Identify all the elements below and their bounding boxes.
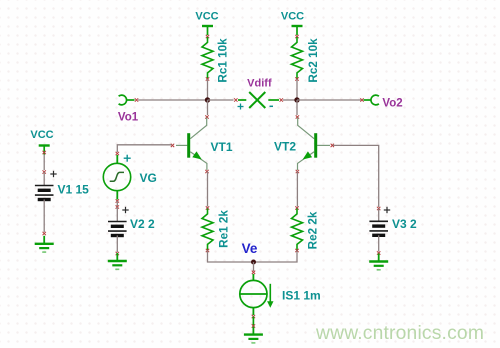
power symbol VCC right — [292, 26, 303, 35]
ground (V1) — [35, 236, 54, 252]
label plus (V3) — [384, 207, 390, 213]
pin mark collector — [296, 115, 299, 118]
svg-text:Vdiff: Vdiff — [247, 78, 272, 90]
transistor VT2 — [296, 115, 334, 173]
current source IS1 — [240, 274, 274, 315]
wire V3 top — [378, 209, 380, 222]
pin mark — [234, 98, 237, 101]
pin mark — [295, 206, 298, 209]
resistor Re1 — [202, 209, 213, 251]
wire Re1 to rail — [208, 251, 254, 263]
svg-text:VCC: VCC — [30, 129, 53, 141]
battery V3 — [369, 221, 388, 235]
svg-text:Vo1: Vo1 — [118, 112, 139, 124]
svg-text:Vo2: Vo2 — [382, 98, 402, 110]
wire V1 top — [43, 172, 45, 186]
pin mark — [252, 324, 255, 327]
svg-text:IS1 1m: IS1 1m — [282, 289, 321, 303]
battery V1 — [35, 186, 54, 200]
svg-text:VT1: VT1 — [210, 140, 232, 154]
label plus (V1) — [50, 171, 56, 177]
wire VT2 base to V3 — [333, 145, 379, 207]
pin mark — [116, 199, 119, 202]
ground (V2) — [108, 253, 127, 269]
pin mark — [43, 232, 46, 235]
svg-text:Re2 2k: Re2 2k — [307, 211, 320, 249]
wire Re2 to rail — [254, 251, 298, 263]
wire V1 to ground — [43, 200, 45, 233]
wire node B to VT2 collector — [296, 100, 298, 115]
pin mark — [295, 249, 298, 252]
node A — [205, 97, 210, 102]
pin mark — [206, 206, 209, 209]
pin mark — [377, 251, 380, 254]
pin mark — [377, 207, 380, 210]
svg-text:VT2: VT2 — [274, 140, 296, 154]
pin mark — [116, 152, 119, 155]
pin mark — [252, 315, 255, 318]
pin mark — [43, 170, 46, 173]
pin mark — [280, 98, 283, 101]
label plus (V2) — [122, 207, 128, 213]
emitter arrow — [192, 151, 202, 159]
power symbol V1 — [39, 146, 50, 155]
ground (IS1) — [244, 327, 263, 343]
pin mark collector — [205, 115, 208, 118]
pin mark base — [331, 144, 334, 147]
resistor Rc1 — [202, 37, 213, 79]
pin mark — [295, 77, 298, 80]
wire Vo1 to node A — [138, 99, 208, 101]
pin mark — [43, 151, 46, 154]
battery V2 — [108, 222, 127, 236]
svg-text:Re1 2k: Re1 2k — [218, 210, 231, 248]
pin mark — [252, 271, 255, 274]
svg-text:www.cntronics.com: www.cntronics.com — [315, 323, 484, 344]
svg-text:VCC: VCC — [195, 11, 218, 23]
pin mark — [295, 35, 298, 38]
wire VG to V2 — [116, 201, 118, 206]
pin mark — [116, 252, 119, 255]
wire V3 to ground — [378, 235, 380, 251]
resistor Re2 — [292, 209, 303, 251]
node B — [294, 97, 299, 102]
arrow (IS1 direction) — [269, 284, 271, 302]
label plus (Vdiff) — [238, 104, 244, 110]
svg-text:VCC: VCC — [281, 11, 304, 23]
pin mark — [116, 205, 119, 208]
wire Rc1 to node A — [207, 79, 209, 100]
pin mark emitter — [205, 170, 208, 173]
wire VT1 emitter to Re1 — [207, 172, 209, 207]
wire power to V1 — [43, 155, 45, 171]
wire V2 top — [116, 207, 118, 222]
wire node B to Vo2 — [297, 99, 361, 101]
label plus (VG) — [124, 155, 131, 162]
resistor Rc2 — [292, 37, 303, 79]
svg-text:V1 15: V1 15 — [58, 183, 90, 197]
svg-text:Rc2 10k: Rc2 10k — [307, 38, 320, 83]
probe Vo2 — [364, 95, 379, 105]
svg-text:Ve: Ve — [242, 241, 258, 256]
emitter arrow — [303, 151, 313, 159]
pin mark — [360, 98, 363, 101]
wire node A to Vdiff — [208, 99, 234, 101]
label minus (Vdiff) — [270, 105, 274, 107]
wire V2 to ground — [116, 236, 118, 253]
wire VT2 emitter to Re2 — [296, 172, 298, 207]
pin mark — [135, 98, 138, 101]
generator VG — [103, 155, 130, 200]
probe Vo1 — [119, 95, 135, 105]
pin mark base — [171, 144, 174, 147]
svg-text:Rc1 10k: Rc1 10k — [217, 38, 230, 83]
wire VG to VT1 base — [117, 145, 171, 152]
pin mark — [206, 249, 209, 252]
svg-text:V2 2: V2 2 — [130, 217, 155, 231]
ground (V3) — [369, 254, 388, 270]
wire Ve to IS1 — [253, 262, 255, 271]
node Ve — [251, 260, 256, 265]
pin mark — [206, 35, 209, 38]
pin mark emitter — [296, 170, 299, 173]
wire Rc2 to node B — [296, 79, 298, 100]
pin mark — [206, 77, 209, 80]
svg-text:VG: VG — [140, 171, 157, 185]
power symbol VCC left — [202, 26, 213, 35]
svg-text:V3 2: V3 2 — [392, 217, 417, 231]
wire node A to VT1 collector — [207, 100, 209, 115]
transistor VT1 — [171, 115, 209, 173]
wire Vdiff to node B — [283, 99, 297, 101]
wire IS1 to ground — [252, 317, 254, 327]
voltmeter Vdiff — [234, 92, 283, 108]
